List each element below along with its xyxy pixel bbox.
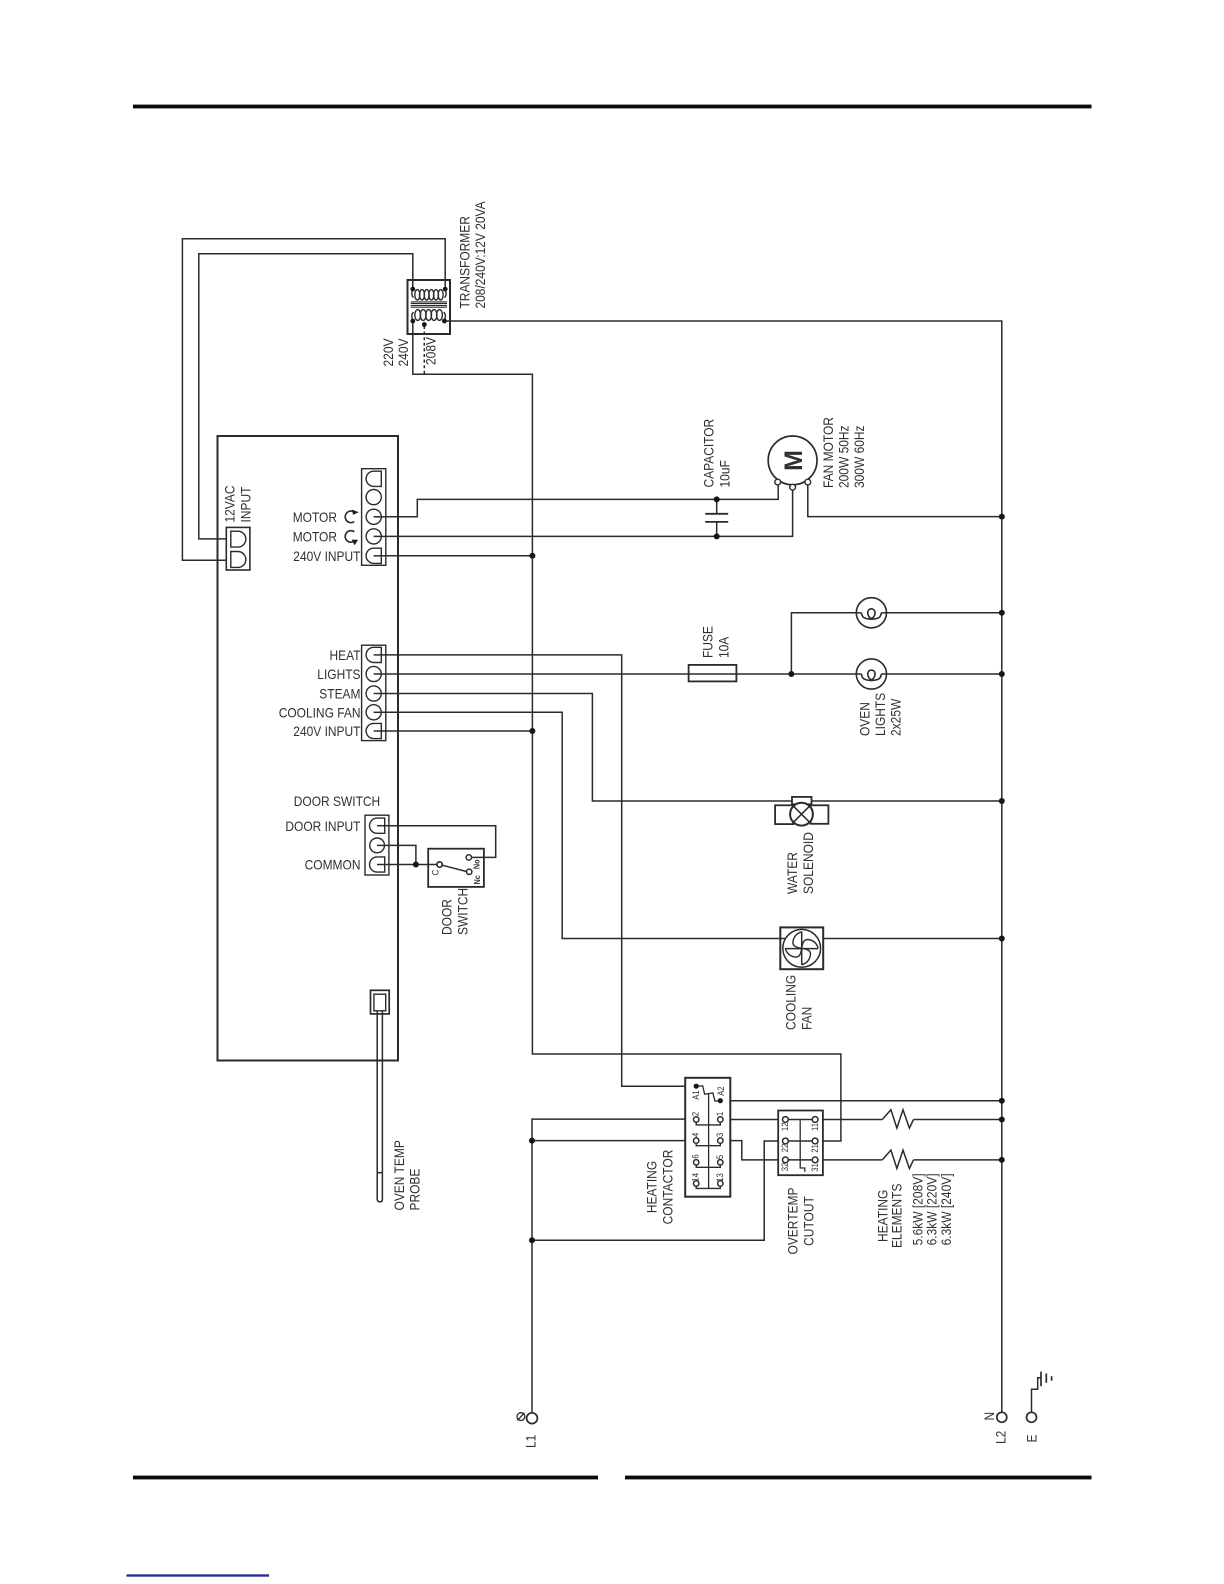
svg-text:Nc: Nc bbox=[472, 875, 482, 885]
svg-text:L2: L2 bbox=[993, 1431, 1009, 1444]
svg-text:MOTOR: MOTOR bbox=[293, 509, 337, 525]
svg-text:LIGHTS: LIGHTS bbox=[872, 693, 888, 736]
svg-text:A2: A2 bbox=[716, 1086, 726, 1095]
svg-text:10A: 10A bbox=[716, 636, 732, 658]
svg-text:LIGHTS: LIGHTS bbox=[317, 666, 360, 682]
svg-text:FUSE: FUSE bbox=[700, 626, 716, 658]
svg-text:22: 22 bbox=[780, 1144, 790, 1153]
svg-text:DOOR: DOOR bbox=[439, 899, 455, 935]
svg-text:CUTOUT: CUTOUT bbox=[801, 1196, 817, 1246]
svg-text:COMMON: COMMON bbox=[305, 857, 361, 873]
svg-text:FAN: FAN bbox=[799, 1007, 815, 1030]
svg-text:21: 21 bbox=[810, 1144, 820, 1153]
svg-text:M: M bbox=[780, 450, 808, 471]
svg-text:TRANSFORMER: TRANSFORMER bbox=[457, 216, 473, 308]
svg-text:220V: 220V bbox=[380, 338, 396, 367]
svg-text:INPUT: INPUT bbox=[238, 486, 254, 522]
svg-text:6: 6 bbox=[690, 1154, 700, 1158]
svg-text:5: 5 bbox=[715, 1155, 725, 1159]
svg-text:HEATING: HEATING bbox=[644, 1161, 660, 1213]
svg-text:32: 32 bbox=[780, 1163, 790, 1172]
svg-text:208/240V:12V 20VA: 208/240V:12V 20VA bbox=[472, 201, 488, 309]
svg-text:FAN MOTOR: FAN MOTOR bbox=[820, 417, 836, 488]
svg-text:N: N bbox=[981, 1412, 997, 1421]
svg-text:HEAT: HEAT bbox=[330, 647, 361, 663]
svg-text:CAPACITOR: CAPACITOR bbox=[701, 419, 717, 488]
svg-text:13: 13 bbox=[715, 1173, 725, 1182]
svg-text:3: 3 bbox=[715, 1133, 725, 1137]
svg-text:2: 2 bbox=[690, 1112, 700, 1116]
svg-text:1: 1 bbox=[715, 1112, 725, 1116]
svg-text:ELEMENTS: ELEMENTS bbox=[889, 1184, 905, 1249]
svg-text:12VAC: 12VAC bbox=[222, 486, 238, 523]
svg-text:240V INPUT: 240V INPUT bbox=[293, 548, 361, 564]
svg-text:CONTACTOR: CONTACTOR bbox=[660, 1150, 676, 1225]
svg-text:14: 14 bbox=[690, 1173, 700, 1182]
svg-text:4: 4 bbox=[690, 1133, 700, 1137]
svg-text:12: 12 bbox=[780, 1123, 790, 1132]
svg-text:COOLING: COOLING bbox=[783, 975, 799, 1030]
svg-text:OVERTEMP: OVERTEMP bbox=[785, 1188, 801, 1255]
svg-text:2x25W: 2x25W bbox=[888, 698, 904, 736]
svg-text:PROBE: PROBE bbox=[407, 1169, 423, 1211]
svg-text:10uF: 10uF bbox=[717, 460, 733, 487]
svg-text:DOOR SWITCH: DOOR SWITCH bbox=[294, 793, 380, 809]
svg-text:DOOR INPUT: DOOR INPUT bbox=[285, 818, 360, 834]
svg-text:No: No bbox=[471, 859, 481, 869]
svg-text:L1: L1 bbox=[523, 1435, 539, 1448]
svg-text:SOLENOID: SOLENOID bbox=[800, 832, 816, 894]
svg-text:COOLING FAN: COOLING FAN bbox=[279, 704, 361, 720]
svg-text:STEAM: STEAM bbox=[319, 685, 360, 701]
svg-text:11: 11 bbox=[810, 1123, 820, 1131]
svg-text:208V: 208V bbox=[423, 336, 439, 365]
svg-text:MOTOR: MOTOR bbox=[293, 529, 337, 545]
svg-text:6.3kW [240V]: 6.3kW [240V] bbox=[938, 1173, 954, 1245]
svg-text:200W 50Hz: 200W 50Hz bbox=[836, 426, 852, 489]
svg-text:OVEN TEMP: OVEN TEMP bbox=[391, 1140, 407, 1210]
svg-text:A1: A1 bbox=[691, 1090, 701, 1099]
svg-text:SWITCH: SWITCH bbox=[455, 888, 471, 935]
svg-text:E: E bbox=[1024, 1435, 1040, 1443]
svg-text:C: C bbox=[430, 870, 441, 876]
svg-text:240V INPUT: 240V INPUT bbox=[293, 723, 361, 739]
svg-text:240V: 240V bbox=[395, 338, 411, 367]
svg-text:OVEN: OVEN bbox=[857, 702, 873, 736]
svg-text:300W 60Hz: 300W 60Hz bbox=[851, 426, 867, 489]
svg-text:WATER: WATER bbox=[784, 852, 800, 894]
svg-text:31: 31 bbox=[810, 1163, 820, 1172]
